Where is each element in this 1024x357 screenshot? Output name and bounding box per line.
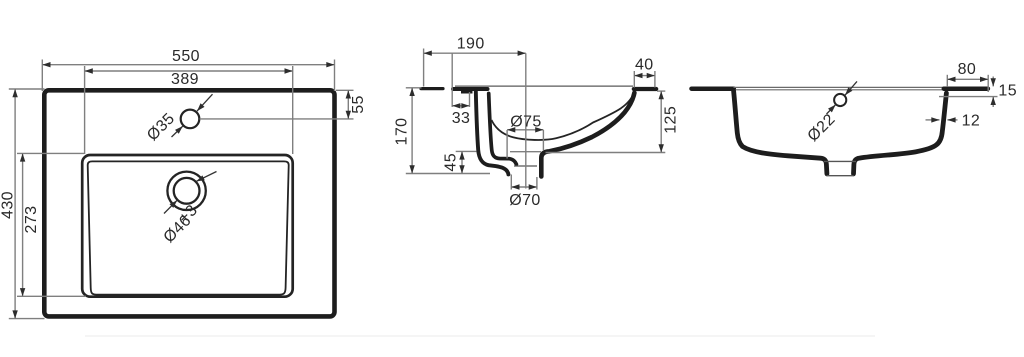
dim 15	[939, 77, 1017, 108]
faucet hole leader	[172, 94, 213, 137]
basin outer rim rect	[44, 90, 334, 316]
drain back edge thin line	[514, 165, 537, 167]
svg-text:550: 550	[172, 48, 200, 65]
faint page rule at bottom	[85, 335, 875, 337]
svg-text:40: 40	[635, 56, 654, 73]
section top bar left	[453, 88, 488, 94]
svg-text:45: 45	[443, 153, 460, 172]
svg-text:80: 80	[958, 61, 977, 78]
section left wall outer surface	[476, 91, 509, 174]
inner bowl floor outline	[88, 161, 289, 294]
svg-text:190: 190	[457, 35, 485, 52]
sump top inner edge thin line	[510, 151, 541, 153]
dim Ø75	[507, 113, 543, 158]
label Ø35	[144, 110, 178, 144]
drain hole circle Ø46	[174, 178, 200, 204]
tap hole circle Ø22	[834, 94, 846, 106]
drain stub bottom line	[827, 175, 854, 177]
svg-text:430: 430	[0, 191, 17, 219]
right counter bar	[944, 86, 988, 91]
dim 12	[926, 112, 981, 129]
inner bowl rim outline	[82, 155, 293, 297]
label Ø46	[161, 212, 195, 246]
svg-text:389: 389	[171, 71, 199, 88]
dim 125	[546, 91, 666, 152]
dim 273	[17, 153, 86, 296]
dim 190	[424, 35, 526, 86]
top right bar	[634, 87, 656, 91]
dim 40	[634, 56, 655, 87]
label Ø22	[805, 111, 839, 145]
section left wall inner surface (overflow channel)	[489, 94, 517, 165]
tap hole leader	[827, 81, 858, 114]
dim Ø70	[509, 175, 540, 210]
svg-text:Ø70: Ø70	[509, 192, 540, 209]
svg-text:33: 33	[452, 110, 471, 127]
drain stub top line	[824, 160, 856, 162]
svg-text:55: 55	[350, 95, 367, 114]
dim 55	[200, 90, 354, 119]
rim back edge line	[455, 85, 633, 87]
rim double lines	[734, 87, 945, 89]
dim 33	[452, 53, 471, 127]
svg-text:12: 12	[962, 112, 981, 129]
right wall and bowl bottom	[854, 93, 947, 174]
dim 550	[42, 48, 334, 91]
dim 430	[9, 89, 45, 319]
svg-text:170: 170	[394, 118, 411, 146]
left counter stub bar	[692, 86, 734, 91]
svg-text:Ø75: Ø75	[510, 113, 541, 130]
centerline of drain	[525, 53, 527, 188]
drain leader	[164, 172, 217, 214]
drain recess outer circle	[167, 172, 205, 210]
counter stub left	[421, 87, 443, 90]
left wall and bowl bottom	[734, 91, 827, 174]
svg-text:273: 273	[23, 206, 40, 234]
svg-text:15: 15	[998, 83, 1017, 100]
dim 45	[456, 151, 477, 173]
dim 80	[947, 61, 988, 92]
svg-text:125: 125	[662, 106, 679, 134]
bowl inner surface curve (thin)	[492, 92, 635, 140]
faucet hole circle	[181, 110, 200, 129]
dim 389	[85, 66, 293, 154]
bowl section curve (thick) with sump right wall	[541, 93, 634, 177]
dim 170	[406, 88, 490, 174]
